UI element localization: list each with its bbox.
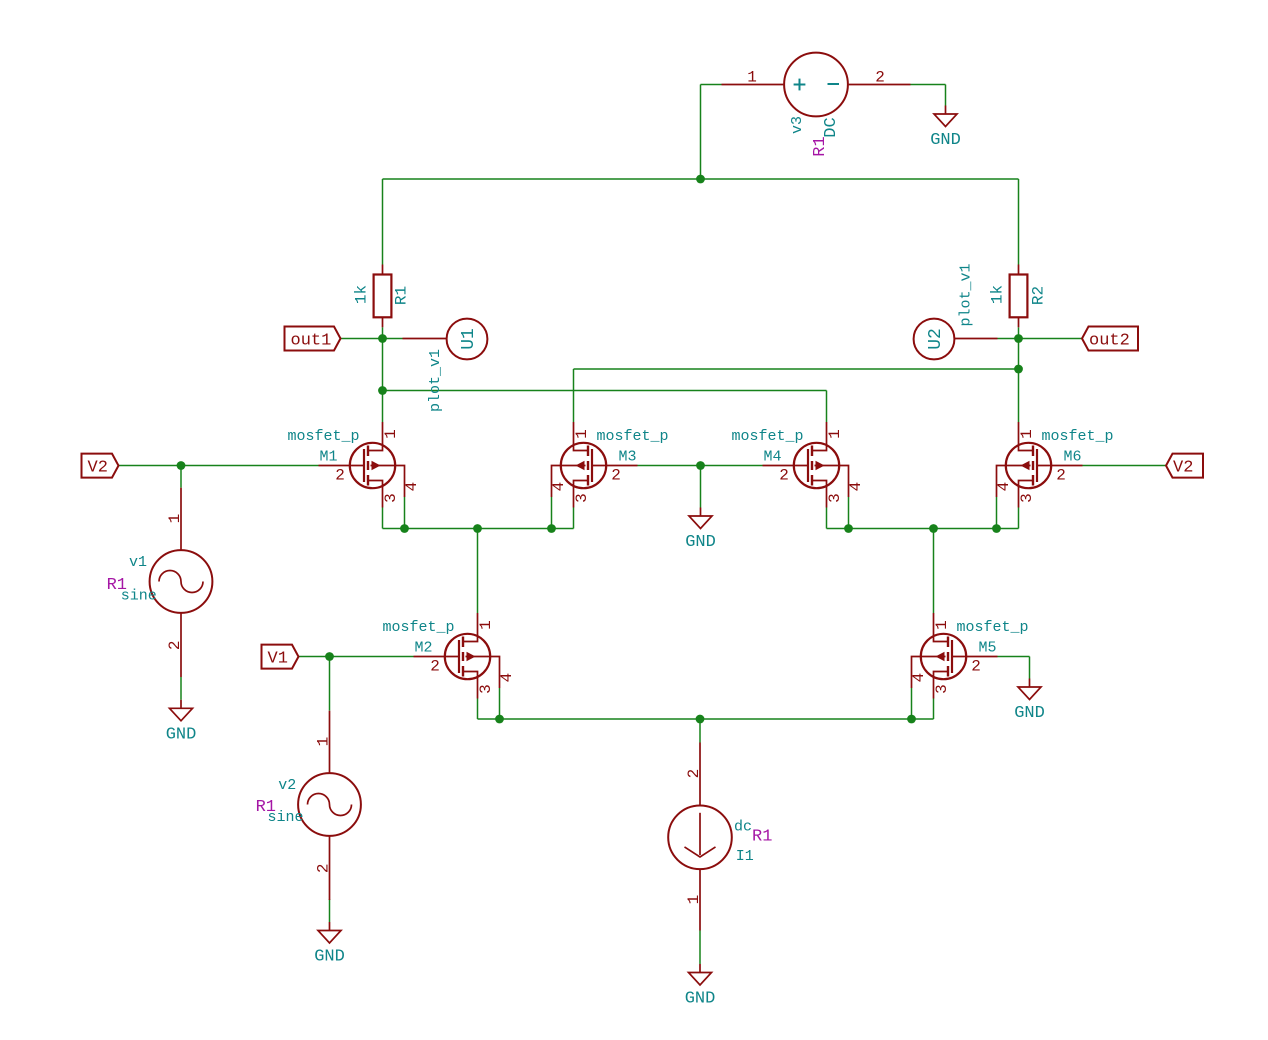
svg-text:4: 4 — [995, 482, 1013, 492]
transistor M3 (mosfet_p) — [550, 422, 669, 508]
voltage source v1 (sine) — [150, 488, 213, 677]
transistor M4 (mosfet_p) — [731, 422, 865, 508]
wire — [1083, 465, 1167, 467]
wire — [383, 390, 827, 392]
junction V1 — [325, 652, 334, 661]
wire — [699, 931, 701, 965]
port V2-right — [1166, 454, 1203, 478]
wire — [180, 466, 182, 488]
wire — [382, 508, 384, 529]
wire — [1029, 657, 1031, 679]
wire — [699, 719, 701, 743]
svg-text:mosfet_p: mosfet_p — [1042, 428, 1114, 445]
ground (v3) — [930, 106, 961, 151]
svg-text:M2: M2 — [414, 640, 432, 657]
wire — [1018, 339, 1020, 370]
wire — [477, 699, 479, 720]
svg-text:1: 1 — [933, 620, 951, 630]
svg-text:mosfet_p: mosfet_p — [597, 428, 669, 445]
svg-text:1: 1 — [685, 895, 703, 905]
ground (I1) — [685, 964, 716, 1009]
svg-text:2: 2 — [611, 467, 621, 485]
svg-text:sine: sine — [121, 588, 157, 605]
transistor M2 (mosfet_p) — [382, 613, 516, 699]
port out1 — [285, 327, 341, 351]
svg-text:mosfet_p: mosfet_p — [731, 428, 803, 445]
wire — [1018, 327, 1020, 338]
svg-text:1: 1 — [573, 429, 591, 439]
transistor M1 (mosfet_p) — [287, 422, 421, 508]
wire — [1018, 508, 1020, 529]
voltage source v2 (sine) — [298, 711, 361, 900]
wire — [382, 327, 384, 338]
wire — [998, 656, 1030, 658]
svg-text:1: 1 — [747, 69, 757, 87]
wire — [329, 657, 331, 711]
wire — [382, 179, 384, 265]
svg-text:2: 2 — [430, 658, 440, 676]
svg-text:GND: GND — [1014, 704, 1045, 723]
wire — [299, 656, 414, 658]
svg-text:1k: 1k — [353, 285, 371, 304]
svg-text:v1: v1 — [129, 554, 147, 571]
svg-text:M1: M1 — [319, 449, 337, 466]
svg-text:1: 1 — [826, 429, 844, 439]
wire — [826, 391, 828, 423]
svg-text:3: 3 — [826, 493, 844, 503]
wire — [119, 465, 319, 467]
svg-text:R2: R2 — [1030, 286, 1048, 305]
svg-text:GND: GND — [685, 990, 716, 1009]
svg-text:1: 1 — [166, 514, 184, 524]
wire — [933, 699, 935, 720]
svg-text:2: 2 — [335, 467, 345, 485]
svg-text:U2: U2 — [926, 328, 946, 350]
svg-text:V2: V2 — [88, 459, 108, 478]
wire — [383, 528, 574, 530]
svg-text:sine: sine — [268, 809, 304, 826]
svg-text:plot_v1: plot_v1 — [958, 263, 975, 326]
svg-text:1: 1 — [315, 737, 333, 747]
svg-text:2: 2 — [1056, 467, 1066, 485]
wire — [383, 178, 1019, 180]
svg-text:R1: R1 — [752, 828, 772, 847]
wire — [911, 688, 913, 719]
junction — [992, 524, 1001, 533]
svg-text:plot_v1: plot_v1 — [427, 349, 444, 412]
wire — [700, 85, 702, 180]
wire — [933, 529, 935, 614]
svg-text:4: 4 — [498, 673, 516, 683]
svg-text:2: 2 — [779, 467, 789, 485]
junction — [495, 715, 504, 724]
svg-text:mosfet_p: mosfet_p — [287, 428, 359, 445]
transistor M6 (mosfet_p) — [995, 422, 1114, 508]
wire — [911, 84, 946, 86]
wire — [573, 508, 575, 529]
ground (M5 gate) — [1014, 679, 1045, 724]
wire — [499, 688, 501, 719]
wire — [826, 508, 828, 529]
junction — [907, 715, 916, 724]
svg-text:1: 1 — [382, 429, 400, 439]
probe U2 — [914, 319, 998, 360]
wire — [827, 528, 1019, 530]
svg-text:V2: V2 — [1173, 459, 1193, 478]
svg-text:1: 1 — [477, 620, 495, 630]
svg-text:1k: 1k — [989, 285, 1007, 304]
junction — [400, 524, 409, 533]
wire — [1018, 179, 1020, 265]
svg-text:3: 3 — [477, 684, 495, 694]
ground (M3/M4 gates) — [685, 508, 716, 553]
svg-text:3: 3 — [382, 493, 400, 503]
svg-text:R1: R1 — [811, 136, 830, 156]
svg-text:4: 4 — [403, 482, 421, 492]
wire — [700, 466, 702, 508]
junction out1 — [378, 334, 387, 343]
wire — [998, 338, 1019, 340]
svg-text:2: 2 — [685, 769, 703, 779]
port V2-left — [82, 454, 119, 478]
wire — [329, 899, 331, 922]
wire — [341, 338, 383, 340]
junction out1/plot — [378, 386, 387, 395]
svg-text:2: 2 — [875, 69, 885, 87]
v2 labels — [256, 777, 304, 826]
junction out2 — [1014, 334, 1023, 343]
wire — [945, 85, 947, 106]
svg-text:v3: v3 — [789, 116, 806, 134]
current source I1 (dc) — [668, 743, 772, 931]
junction — [929, 524, 938, 533]
svg-text:2: 2 — [166, 640, 184, 650]
svg-text:out2: out2 — [1089, 332, 1130, 351]
svg-text:1: 1 — [1018, 429, 1036, 439]
transistor M5 (mosfet_p) — [910, 613, 1029, 699]
svg-text:2: 2 — [971, 658, 981, 676]
port V1 — [262, 645, 299, 669]
wire — [382, 391, 384, 423]
svg-text:V1: V1 — [268, 650, 288, 669]
wire — [383, 338, 403, 340]
wire — [404, 497, 406, 529]
junction Vdd — [696, 175, 705, 184]
svg-text:4: 4 — [847, 482, 865, 492]
wire — [477, 529, 479, 614]
svg-text:GND: GND — [685, 533, 716, 552]
voltage source v3 (DC) — [722, 53, 911, 157]
svg-text:mosfet_p: mosfet_p — [382, 619, 454, 636]
wire — [1018, 369, 1020, 422]
svg-text:3: 3 — [933, 684, 951, 694]
wire — [996, 497, 998, 529]
probe U1 — [403, 319, 488, 360]
wire — [551, 497, 553, 529]
svg-text:GND: GND — [314, 948, 345, 967]
svg-text:3: 3 — [573, 493, 591, 503]
junction — [547, 524, 556, 533]
svg-text:4: 4 — [550, 482, 568, 492]
wire — [638, 465, 763, 467]
svg-text:dc: dc — [734, 819, 752, 836]
resistor R2 1k — [989, 265, 1048, 328]
svg-text:out1: out1 — [291, 332, 332, 351]
wire — [573, 369, 575, 422]
svg-text:v2: v2 — [278, 777, 296, 794]
junction tail — [696, 715, 705, 724]
wire — [1019, 338, 1083, 340]
wire — [180, 677, 182, 700]
wire — [574, 368, 1019, 370]
port out2 — [1082, 327, 1138, 351]
svg-text:U1: U1 — [459, 328, 479, 350]
wire — [848, 497, 850, 529]
svg-text:M3: M3 — [619, 449, 637, 466]
svg-text:M6: M6 — [1064, 449, 1082, 466]
svg-text:3: 3 — [1018, 493, 1036, 503]
svg-text:2: 2 — [315, 863, 333, 873]
svg-text:DC: DC — [822, 117, 841, 137]
svg-text:M5: M5 — [979, 640, 997, 657]
svg-text:GND: GND — [166, 725, 197, 744]
svg-text:M4: M4 — [763, 449, 781, 466]
v1 labels — [107, 554, 157, 605]
ground (v1) — [166, 700, 197, 745]
svg-text:mosfet_p: mosfet_p — [957, 619, 1029, 636]
junction V2 — [177, 461, 186, 470]
svg-text:GND: GND — [930, 131, 961, 150]
wire — [701, 84, 722, 86]
junction out2/drain — [1014, 365, 1023, 374]
junction gate-M3/M4 — [696, 461, 705, 470]
wire — [478, 718, 934, 720]
junction — [473, 524, 482, 533]
svg-text:R1: R1 — [393, 286, 411, 305]
resistor R1 1k — [353, 265, 411, 328]
svg-text:I1: I1 — [736, 848, 754, 865]
junction — [844, 524, 853, 533]
ground (v2) — [314, 922, 345, 967]
svg-text:4: 4 — [910, 673, 928, 683]
wire — [382, 339, 384, 391]
